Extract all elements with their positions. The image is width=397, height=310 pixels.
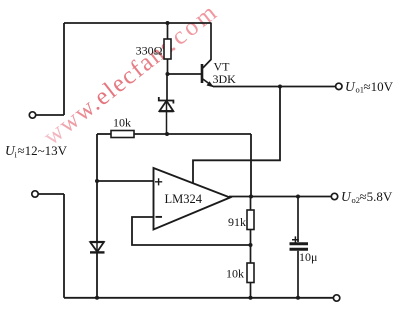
svg-text:3DK: 3DK [213,72,237,86]
node base junction [166,72,170,76]
node emitter feedback junction [278,85,282,89]
svg-text:10k: 10k [226,267,244,281]
svg-text:330Ω: 330Ω [136,44,163,58]
svg-text:≈5.8V: ≈5.8V [360,189,393,204]
svg-text:U: U [341,189,352,204]
wire plus input [97,180,154,182]
node output / 91k junction [249,195,253,199]
terminal bottom right [333,295,339,301]
node zener / 10k wire junction [165,132,169,136]
node bottom 10k [249,296,253,300]
zener diode VD1 [159,74,174,134]
node plus-input junction [95,179,99,183]
svg-text:LM324: LM324 [165,192,203,206]
node bottom cap [296,296,300,300]
transistor VT 3DK [202,23,236,87]
svg-text:10μ: 10μ [299,250,317,264]
wire left branch vertical [96,134,98,298]
wire input minus vertical [63,194,65,298]
diode VD2 [90,242,105,252]
wire base [168,73,202,75]
resistor 330ohm [136,23,171,74]
resistor 10k bottom [226,245,254,298]
wire op-amp output [229,196,331,198]
terminal input minus [32,191,64,197]
wire power feedback [193,87,280,184]
capacitor C1 10u [290,197,318,298]
wire top rail [64,22,212,24]
svg-text:≈10V: ≈10V [364,79,394,94]
label Uo1 [345,79,394,94]
watermark [39,0,224,151]
label Ui [5,143,68,160]
wire bottom rail [64,297,334,299]
wire left vertical (input+) [63,23,65,115]
wire minus input L [132,217,251,245]
svg-text:U: U [345,79,356,94]
label Uo2 [341,189,393,205]
terminal Uo1 [336,83,342,89]
op-amp U1 LM324 [154,168,231,230]
resistor 91k [228,197,254,246]
terminal Uo2 [331,193,337,199]
svg-text:91k: 91k [228,215,246,229]
terminal input plus [29,112,64,118]
node bottom left branch [95,296,99,300]
wire emitter to output1 [213,86,336,88]
resistor 10k top [97,116,251,138]
node output / cap junction [296,195,300,199]
wire 10k to output node [250,134,252,197]
node divider junction [249,243,253,247]
svg-text:≈12~13V: ≈12~13V [18,143,68,158]
svg-text:10k: 10k [113,116,131,130]
node top rail / 330 ohm junction [166,21,170,25]
